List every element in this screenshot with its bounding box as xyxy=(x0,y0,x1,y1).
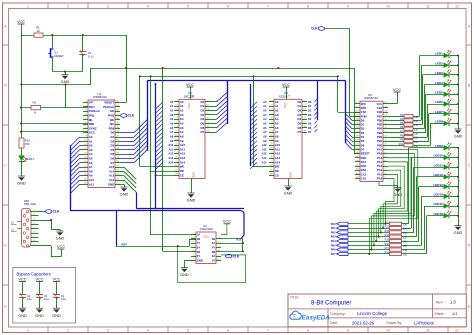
svg-text:0.1u: 0.1u xyxy=(61,297,67,301)
bus U1 address vertical xyxy=(70,145,72,211)
svg-text:LED9: LED9 xyxy=(435,144,443,148)
svg-text:PA7: PA7 xyxy=(331,252,336,256)
resistor R6 xyxy=(388,128,404,130)
svg-text:VCC: VCC xyxy=(186,83,194,87)
svg-text:PA4: PA4 xyxy=(377,160,383,164)
U2 GND xyxy=(191,179,193,194)
svg-text:LARoberts: LARoberts xyxy=(414,320,434,325)
svg-text:3Y: 3Y xyxy=(212,258,215,262)
svg-text:GND: GND xyxy=(18,313,27,318)
bus U2 data vertical xyxy=(227,80,229,124)
svg-text:1B: 1B xyxy=(197,237,200,241)
LED10 xyxy=(433,152,451,160)
svg-text:9: 9 xyxy=(347,328,349,332)
svg-text:GND: GND xyxy=(120,192,129,197)
svg-text:A8: A8 xyxy=(170,134,174,138)
net flag PA7 xyxy=(337,252,349,255)
svg-text:R10: R10 xyxy=(399,143,404,146)
LED4 xyxy=(435,79,451,87)
svg-text:D2: D2 xyxy=(308,109,312,113)
U1 A12-15 staircase right xyxy=(120,167,124,169)
U2 VCC xyxy=(190,87,192,99)
svg-text:CLK: CLK xyxy=(233,254,240,258)
svg-text:LED3: LED3 xyxy=(435,71,443,75)
svg-text:4Y: 4Y xyxy=(212,246,215,250)
svg-text:LED2: LED2 xyxy=(435,61,443,65)
svg-text:1Y: 1Y xyxy=(197,241,200,245)
svg-text:10: 10 xyxy=(11,220,15,224)
svg-text:12: 12 xyxy=(455,4,459,8)
svg-text:3: 3 xyxy=(107,328,109,332)
wire NMI xyxy=(21,123,88,125)
svg-text:D6: D6 xyxy=(308,126,312,130)
svg-text:PA3: PA3 xyxy=(377,164,383,168)
IC U6 WD65C22 xyxy=(360,101,383,181)
svg-text:A14: A14 xyxy=(262,160,267,164)
svg-text:9: 9 xyxy=(347,4,349,8)
svg-text:1A: 1A xyxy=(197,233,200,237)
svg-text:A9: A9 xyxy=(170,139,174,143)
svg-text:0.1u: 0.1u xyxy=(27,297,33,301)
svg-text:RS3: RS3 xyxy=(361,168,367,172)
wire U2 WE drop xyxy=(139,76,141,166)
svg-text:6: 6 xyxy=(227,328,229,332)
svg-text:VCC: VCC xyxy=(57,245,65,249)
svg-text:2: 2 xyxy=(67,328,69,332)
svg-text:GND: GND xyxy=(289,172,293,178)
net label RST xyxy=(116,211,118,246)
ground LED17 xyxy=(17,176,26,186)
wire R8 to LED6 xyxy=(413,137,427,139)
svg-text:R2: R2 xyxy=(33,100,37,104)
svg-text:C3: C3 xyxy=(44,294,48,298)
resistor R9 xyxy=(388,141,404,143)
svg-text:D: D xyxy=(4,243,7,247)
svg-text:A14: A14 xyxy=(168,160,173,164)
svg-text:A12: A12 xyxy=(262,152,267,156)
svg-text:2: 2 xyxy=(67,4,69,8)
capacitor C4 xyxy=(52,277,60,281)
svg-text:R17: R17 xyxy=(385,247,390,250)
svg-text:D7: D7 xyxy=(200,130,204,134)
U4 GND xyxy=(184,260,191,262)
U4 VCC symbol xyxy=(221,224,227,235)
svg-text:150: 150 xyxy=(414,137,419,140)
svg-text:D5: D5 xyxy=(308,122,312,126)
net flag PA2 xyxy=(337,231,349,234)
bus U3 address vertical xyxy=(250,84,252,166)
svg-text:WD65C22: WD65C22 xyxy=(364,96,378,100)
svg-text:CLK: CLK xyxy=(128,114,135,118)
svg-text:D: D xyxy=(468,243,471,247)
svg-text:Date:: Date: xyxy=(330,321,338,325)
svg-text:VCC: VCC xyxy=(393,88,401,92)
resistor R11 xyxy=(348,223,390,225)
LED5 xyxy=(435,89,451,97)
svg-text:D1: D1 xyxy=(361,123,365,127)
resistor R10 xyxy=(388,145,404,147)
ground LED bank 1 xyxy=(454,129,463,139)
LED15 xyxy=(433,201,451,209)
svg-text:GND: GND xyxy=(187,198,196,203)
svg-text:CE: CE xyxy=(180,173,184,177)
resistor R18 xyxy=(348,253,390,255)
wire VCC rail xyxy=(21,24,23,138)
svg-text:RST: RST xyxy=(122,242,128,246)
resistor R4 xyxy=(388,120,404,122)
svg-text:3: 3 xyxy=(107,4,109,8)
svg-text:CB1: CB1 xyxy=(377,106,383,110)
svg-text:A10: A10 xyxy=(262,143,267,147)
svg-text:0.1u: 0.1u xyxy=(44,297,50,301)
svg-text:D7: D7 xyxy=(297,130,301,134)
wire y85 net xyxy=(21,84,91,86)
svg-text:1: 1 xyxy=(27,4,29,8)
resistor R12 xyxy=(348,228,390,230)
net flag PA3 xyxy=(337,235,349,238)
capacitor C1 xyxy=(82,35,84,52)
svg-text:PB6: PB6 xyxy=(377,118,383,122)
svg-text:A3: A3 xyxy=(170,113,174,117)
LED2 xyxy=(435,60,451,68)
svg-text:RESET: RESET xyxy=(361,152,370,156)
junction dots xyxy=(51,34,53,36)
wire R18 to LED16 xyxy=(402,253,427,255)
svg-text:D5: D5 xyxy=(361,139,365,143)
svg-text:PA2: PA2 xyxy=(377,168,383,172)
resistor R15 xyxy=(348,241,390,243)
U3 GND xyxy=(288,179,290,187)
U2 D diagonals to bus xyxy=(210,101,217,103)
svg-text:GND: GND xyxy=(52,313,61,318)
svg-text:VCC: VCC xyxy=(18,277,26,281)
U3 VCC xyxy=(286,87,288,99)
svg-text:GND: GND xyxy=(35,313,44,318)
svg-text:PB5: PB5 xyxy=(377,123,383,127)
svg-text:LED7: LED7 xyxy=(435,110,443,114)
svg-text:LED5: LED5 xyxy=(435,91,443,95)
svg-text:A9: A9 xyxy=(263,139,267,143)
resistor R3 xyxy=(388,116,404,118)
svg-text:A5: A5 xyxy=(263,122,267,126)
wire U6 PA2 xyxy=(381,170,401,232)
svg-text:VCC: VCC xyxy=(223,220,231,224)
EasyEDA logo xyxy=(290,311,330,321)
svg-text:LED11: LED11 xyxy=(434,163,444,167)
svg-text:LED8: LED8 xyxy=(435,120,443,124)
LED1 xyxy=(435,50,451,58)
svg-text:3B: 3B xyxy=(212,250,215,254)
svg-text:LED14: LED14 xyxy=(433,193,443,197)
wire U6 PA1 xyxy=(383,174,397,228)
wire R14 to LED12 xyxy=(402,236,417,238)
wire R9 to LED7 xyxy=(413,141,429,143)
net flag PA0 xyxy=(337,222,349,225)
capacitor C3 xyxy=(35,277,43,281)
net flag CLK top xyxy=(311,27,325,31)
wire R12 to LED10 xyxy=(402,228,412,230)
svg-text:Company:: Company: xyxy=(330,312,346,316)
wire VCC pin U1 xyxy=(21,131,88,133)
bus U3 data vertical xyxy=(317,80,319,120)
svg-text:150: 150 xyxy=(25,142,30,146)
resistor R17 xyxy=(348,249,390,251)
svg-text:4: 4 xyxy=(147,328,149,332)
svg-text:D3: D3 xyxy=(361,131,365,135)
svg-text:IRQ: IRQ xyxy=(361,102,366,106)
ground reset xyxy=(61,75,70,85)
svg-text:GND: GND xyxy=(61,79,70,84)
LED6 xyxy=(435,99,451,107)
wire U6 PA4 xyxy=(376,162,407,241)
DB9 VCC branch xyxy=(39,245,52,247)
svg-text:LED6: LED6 xyxy=(435,100,443,104)
wire R5 to LED3 xyxy=(413,124,423,126)
wire U2 CE xyxy=(156,175,175,177)
svg-text:LED13: LED13 xyxy=(433,183,443,187)
svg-text:VCC: VCC xyxy=(283,103,287,109)
svg-text:VCC: VCC xyxy=(35,277,43,281)
svg-text:A6: A6 xyxy=(263,126,267,130)
U6 GND xyxy=(383,182,391,184)
svg-text:PA6: PA6 xyxy=(377,152,383,156)
svg-text:Bypass Capacitors: Bypass Capacitors xyxy=(17,271,51,276)
svg-text:A1: A1 xyxy=(170,104,174,108)
svg-text:CB2: CB2 xyxy=(377,110,383,114)
svg-text:PB0: PB0 xyxy=(377,143,383,147)
wire U6 PA3 xyxy=(379,166,405,237)
svg-text:0.1u: 0.1u xyxy=(88,54,94,58)
svg-text:A13: A13 xyxy=(262,156,267,160)
svg-text:D0: D0 xyxy=(361,118,365,122)
DB9 GND branch xyxy=(39,220,52,222)
wire R2 RDY xyxy=(21,107,88,109)
LED3 xyxy=(435,70,451,78)
svg-text:PB4: PB4 xyxy=(377,127,383,131)
svg-text:R14: R14 xyxy=(385,234,390,237)
LED1-8 cathode rail xyxy=(458,56,460,130)
svg-text:A11: A11 xyxy=(262,147,267,151)
svg-text:PA1: PA1 xyxy=(377,172,383,176)
resistor R7 xyxy=(388,132,404,134)
svg-text:A4: A4 xyxy=(170,117,174,121)
svg-text:R13: R13 xyxy=(385,230,390,233)
resistor R2 xyxy=(31,105,41,109)
svg-text:11: 11 xyxy=(426,4,430,8)
svg-text:A7: A7 xyxy=(263,130,267,134)
svg-text:PA5: PA5 xyxy=(331,243,336,247)
wire 2A xyxy=(177,246,179,248)
svg-text:11: 11 xyxy=(11,227,14,231)
svg-text:7: 7 xyxy=(267,4,269,8)
svg-text:2Y: 2Y xyxy=(197,254,200,258)
svg-text:2021-02-26: 2021-02-26 xyxy=(352,320,375,325)
svg-text:D7: D7 xyxy=(308,130,312,134)
wire H1 reset net xyxy=(91,68,354,70)
svg-text:PA0: PA0 xyxy=(377,177,383,181)
svg-text:PA0: PA0 xyxy=(331,222,336,226)
svg-text:EasyEDA: EasyEDA xyxy=(302,314,331,321)
wire S1-C1 bottom xyxy=(52,71,83,73)
svg-text:C2: C2 xyxy=(27,294,31,298)
svg-text:A2: A2 xyxy=(263,109,267,113)
resistor R1 xyxy=(34,33,43,37)
svg-text:A7: A7 xyxy=(170,130,174,134)
net flag PA1 xyxy=(337,227,349,230)
svg-text:D3: D3 xyxy=(308,113,312,117)
svg-text:RS1: RS1 xyxy=(361,160,367,164)
svg-text:LED12: LED12 xyxy=(433,173,443,177)
svg-text:CS2: CS2 xyxy=(361,110,367,114)
svg-text:WD65C02: WD65C02 xyxy=(93,95,107,99)
wire CS2 drop xyxy=(337,76,339,112)
wire U6 PA0 xyxy=(385,179,394,224)
net flag PA5 xyxy=(337,244,349,247)
net flag PA4 xyxy=(337,239,349,242)
net flag PA6 xyxy=(337,248,349,251)
svg-text:D4: D4 xyxy=(361,135,365,139)
LED17 xyxy=(21,148,23,155)
capacitor C2 xyxy=(18,277,26,281)
svg-text:Sheet:: Sheet: xyxy=(435,312,445,316)
svg-text:A4: A4 xyxy=(263,117,267,121)
U6 D diagonals from bus xyxy=(345,113,352,120)
svg-text:LED4: LED4 xyxy=(435,81,443,85)
svg-text:PA2: PA2 xyxy=(331,230,336,234)
svg-text:A15: A15 xyxy=(236,237,241,241)
svg-text:D4: D4 xyxy=(308,117,312,121)
svg-text:Lincoln College: Lincoln College xyxy=(357,311,388,316)
svg-text:11: 11 xyxy=(426,328,430,332)
svg-text:8: 8 xyxy=(307,4,309,8)
wire R7 to LED5 xyxy=(413,132,426,134)
svg-text:D7: D7 xyxy=(361,147,365,151)
svg-text:PB7: PB7 xyxy=(377,114,383,118)
title block xyxy=(288,294,466,327)
LED7 xyxy=(435,109,451,117)
svg-text:R18: R18 xyxy=(385,251,390,254)
svg-text:PB1: PB1 xyxy=(377,139,383,143)
svg-text:GND: GND xyxy=(180,272,189,277)
U1 A staircase left xyxy=(80,137,84,139)
wire R10 to LED8 xyxy=(413,145,430,147)
DB9 CLK flag xyxy=(39,211,46,213)
resistor R13 xyxy=(348,232,390,234)
bypass capacitors box xyxy=(13,268,76,324)
svg-text:TITLE:: TITLE: xyxy=(290,296,300,300)
svg-text:A5: A5 xyxy=(170,122,174,126)
svg-text:CLK: CLK xyxy=(311,27,318,31)
svg-text:A11: A11 xyxy=(89,182,95,186)
svg-text:A13: A13 xyxy=(168,156,173,160)
svg-text:VCC: VCC xyxy=(52,277,60,281)
wire U6 PA7 xyxy=(369,149,418,253)
resistor R14 xyxy=(348,236,390,238)
svg-text:Drawn By:: Drawn By: xyxy=(387,321,403,325)
wire R17 to LED15 xyxy=(402,249,425,251)
svg-text:10: 10 xyxy=(386,4,390,8)
svg-text:A0: A0 xyxy=(170,100,174,104)
wire U4 feedback loop xyxy=(178,246,246,283)
svg-text:A8: A8 xyxy=(263,134,267,138)
svg-text:R11: R11 xyxy=(385,221,390,224)
bus U2 address vertical xyxy=(155,84,157,208)
svg-text:PA7: PA7 xyxy=(377,147,383,151)
svg-text:LED10: LED10 xyxy=(433,154,443,158)
svg-text:GND: GND xyxy=(197,258,203,262)
svg-text:VCC: VCC xyxy=(204,234,210,238)
switch S1 xyxy=(52,35,54,48)
wire CLK to U6 PHI2 xyxy=(325,28,350,30)
LED9-16 cathode rail xyxy=(458,148,460,226)
svg-text:PA4: PA4 xyxy=(331,239,336,243)
svg-text:GND: GND xyxy=(454,134,463,139)
svg-text:RESET: RESET xyxy=(55,54,65,58)
svg-text:A1: A1 xyxy=(263,104,267,108)
svg-text:DB9_Male: DB9_Male xyxy=(24,202,37,206)
svg-text:PB3: PB3 xyxy=(377,131,383,135)
resistor R16 xyxy=(348,245,390,247)
wire long vertical to U4 xyxy=(162,68,164,251)
svg-text:A11: A11 xyxy=(169,147,174,151)
svg-text:1/1: 1/1 xyxy=(452,311,458,316)
svg-text:GND: GND xyxy=(56,236,65,241)
LED12 xyxy=(433,172,451,180)
svg-text:VCC: VCC xyxy=(282,83,290,87)
svg-text:2B: 2B xyxy=(197,250,200,254)
svg-text:6: 6 xyxy=(227,4,229,8)
LED14 xyxy=(433,191,451,199)
svg-text:CS: CS xyxy=(275,173,279,177)
wire R6 to LED4 xyxy=(413,128,424,130)
svg-text:10: 10 xyxy=(386,328,390,332)
IC U4 74HC00N xyxy=(196,232,216,264)
svg-text:C: C xyxy=(468,163,471,167)
svg-text:D1: D1 xyxy=(308,104,312,108)
svg-text:5: 5 xyxy=(187,4,189,8)
wire R13 to LED11 xyxy=(402,232,414,234)
svg-text:R15: R15 xyxy=(385,239,390,242)
svg-text:CA1: CA1 xyxy=(361,172,367,176)
svg-text:GND: GND xyxy=(108,182,114,186)
bus U1 data vertical xyxy=(147,80,149,151)
svg-text:C: C xyxy=(4,163,7,167)
svg-text:12: 12 xyxy=(455,328,459,332)
svg-text:A3: A3 xyxy=(263,113,267,117)
svg-text:C4: C4 xyxy=(61,294,65,298)
svg-text:A0: A0 xyxy=(263,100,267,104)
svg-text:A6: A6 xyxy=(170,126,174,130)
svg-text:GND: GND xyxy=(284,191,293,196)
svg-text:PHI2: PHI2 xyxy=(361,114,367,118)
svg-text:GND: GND xyxy=(454,230,463,235)
wire H2 xyxy=(140,76,338,78)
svg-text:RS0: RS0 xyxy=(361,156,367,160)
svg-text:4B: 4B xyxy=(212,237,215,241)
svg-text:REV:: REV: xyxy=(436,301,444,305)
IC U3 62256 xyxy=(274,99,302,178)
svg-text:PA5: PA5 xyxy=(377,156,383,160)
power flag VCC main xyxy=(17,20,25,24)
svg-text:R12: R12 xyxy=(385,226,390,229)
svg-text:GND: GND xyxy=(192,172,196,178)
wire R15 to LED13 xyxy=(402,241,419,243)
U1 GND xyxy=(120,184,124,186)
svg-text:CA2: CA2 xyxy=(361,177,367,181)
svg-text:PA6: PA6 xyxy=(331,248,336,252)
LED11 xyxy=(434,162,452,170)
wire R3 to LED1 xyxy=(413,116,420,118)
